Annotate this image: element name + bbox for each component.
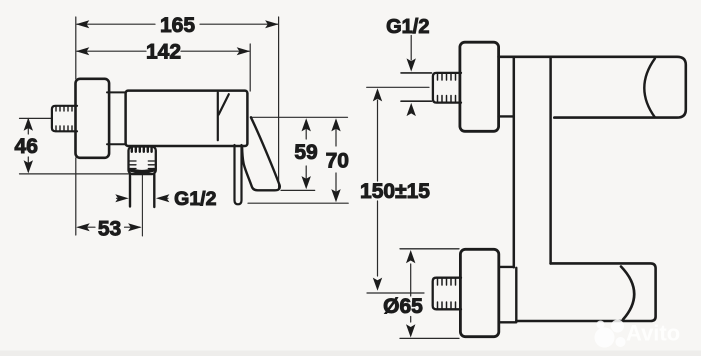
extension line lever pivot (y=117.3) xyxy=(252,116,348,118)
dim 46 line xyxy=(27,120,29,172)
bottom nipple xyxy=(433,278,461,310)
G1/2 top arrow xyxy=(407,58,416,71)
main body xyxy=(126,91,248,146)
dim 150±15 arrows xyxy=(373,88,382,291)
svg-text:150±15: 150±15 xyxy=(360,180,430,203)
handle wedge diagonal xyxy=(219,94,229,114)
top wall flange xyxy=(460,42,499,131)
svg-text:Ø65: Ø65 xyxy=(383,295,423,318)
vertical bar right edge xyxy=(549,57,552,263)
dim Ø65 line xyxy=(410,264,412,322)
dim 165 line xyxy=(77,23,278,25)
svg-text:142: 142 xyxy=(146,41,181,64)
extension line nipple axis (y=118.4) xyxy=(20,117,52,119)
G1/2 extension lines xyxy=(401,73,432,101)
svg-text:G1/2: G1/2 xyxy=(174,188,216,210)
extension line bottom axis (y=293) xyxy=(367,292,424,294)
bottom strip xyxy=(0,351,701,356)
bottom neck lines xyxy=(499,267,516,322)
outlet centerline xyxy=(141,175,143,237)
bottom arm arc xyxy=(621,267,634,320)
bottom wall flange xyxy=(460,249,498,336)
dim 150±15 line xyxy=(377,100,379,276)
extension line top axis (y=87.3) xyxy=(367,86,429,88)
extension line 142 right (x=250.2) xyxy=(249,44,251,91)
extension line rod bottom (y=203.2) xyxy=(248,202,348,204)
Ø65 extension lines xyxy=(400,249,459,339)
top nipple xyxy=(433,73,461,103)
svg-text:46: 46 xyxy=(15,135,38,158)
bottom arm left cap line xyxy=(515,268,517,321)
dim Ø65 arrows xyxy=(406,250,415,338)
extension line lever tip (y=190.4) xyxy=(281,189,315,191)
svg-text:53: 53 xyxy=(98,217,121,240)
wall flange xyxy=(76,79,110,158)
dim G1/2 left-view arrows xyxy=(115,194,169,202)
inlet nipple xyxy=(52,106,77,132)
svg-text:70: 70 xyxy=(326,149,349,172)
dim 70 arrows xyxy=(331,118,340,202)
top arm body outline xyxy=(499,57,686,118)
top arm end arc xyxy=(644,59,655,118)
G1/2 bottom arrow xyxy=(407,103,416,116)
svg-text:Avito: Avito xyxy=(626,321,680,346)
dim G1/2 left-view tails xyxy=(117,197,169,199)
dim 53 line xyxy=(78,226,140,228)
vertical bar left edge xyxy=(513,57,516,267)
handle rod below body xyxy=(235,145,242,204)
dim 70 line xyxy=(335,121,337,201)
extension line 165 right (x=278.6) xyxy=(278,17,280,190)
svg-text:165: 165 xyxy=(160,14,195,37)
dim 142 arrows xyxy=(76,47,250,55)
bottom arm outline xyxy=(516,263,655,321)
handle wedge vertical line xyxy=(217,93,219,141)
top neck bottom line xyxy=(499,115,514,117)
dim 165 arrows xyxy=(76,20,279,28)
extension line left (x=75.8) xyxy=(75,17,77,235)
svg-text:G1/2: G1/2 xyxy=(386,16,429,38)
dim 53 arrows xyxy=(76,223,141,231)
neck between flange and body xyxy=(107,92,126,144)
dim 46 arrows xyxy=(24,118,33,174)
dim 59 line xyxy=(305,121,307,187)
lever handle xyxy=(242,117,280,190)
svg-text:59: 59 xyxy=(294,141,317,164)
G1/2 leader line xyxy=(410,36,412,61)
Avito watermark logo circles xyxy=(595,320,626,348)
shower outlet xyxy=(129,147,156,175)
outlet thread extension lines xyxy=(130,175,154,208)
dim 142 line xyxy=(77,50,249,52)
dim 59 arrows xyxy=(302,118,311,189)
extension line outlet bottom (y=173.9) xyxy=(20,173,129,175)
